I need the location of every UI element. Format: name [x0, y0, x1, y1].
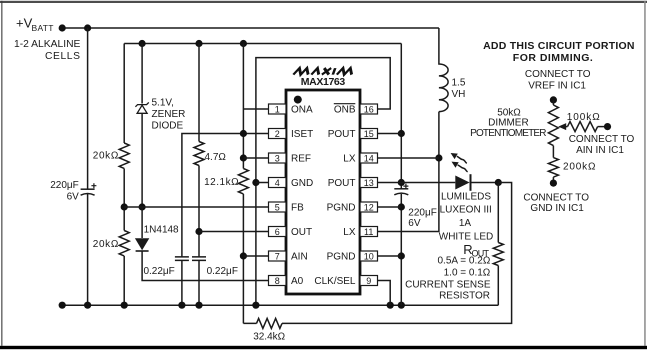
wire: pin 7 AIN stub — [243, 255, 268, 257]
svg-text:5.1V,: 5.1V, — [152, 97, 174, 108]
wire: ISET line pin 2 to bypass cap — [182, 134, 269, 306]
LED D3 Lumileds Luxeon III white LED — [439, 153, 493, 242]
node: AIN connection label — [569, 134, 635, 156]
wire: feedback loop sense node to 32.4k to AIN line — [243, 183, 511, 324]
capacitor C4 220uF 6V (output) — [394, 184, 437, 230]
junction: PGND pin 12 tap — [398, 203, 405, 210]
svg-text:8: 8 — [275, 276, 280, 286]
svg-text:ONB: ONB — [334, 105, 356, 116]
U1 pin 14 label LX — [343, 154, 356, 165]
wire: pin 1 stub — [243, 108, 268, 110]
U1 pin 14 box — [360, 153, 378, 163]
svg-text:A0: A0 — [291, 276, 304, 287]
svg-text:20kΩ: 20kΩ — [93, 239, 119, 250]
svg-text:CELLS: CELLS — [45, 51, 80, 62]
junction: ground rail / PGND line — [398, 302, 405, 309]
U1 pin 12 label PGND — [327, 203, 356, 214]
junction: LED cathode / ROUT / feedback — [495, 179, 502, 186]
svg-text:AIN: AIN — [291, 252, 308, 263]
svg-text:POUT: POUT — [328, 129, 356, 140]
zener diode D1 5.1V — [135, 97, 185, 131]
note: dimming instructions — [483, 40, 634, 64]
junction: POUT rail / ONA branch — [240, 40, 247, 47]
U1 pin 9 box — [360, 276, 378, 286]
junction: AIN tap — [240, 252, 247, 259]
svg-text:1A: 1A — [459, 218, 472, 229]
resistor R5 32.4k — [253, 318, 285, 342]
wire: OUT node to pin 6 — [199, 231, 269, 233]
node: GND connection label — [523, 192, 589, 214]
wire: 100k to AIN terminal — [598, 126, 608, 128]
wire: input cap branch (VBATT to ground) — [87, 28, 89, 305]
wire: POUT/PGND output cap line — [400, 44, 402, 306]
junction: LX tie at pin 14 — [435, 154, 442, 161]
wire: pin 13 POUT to LED anode — [378, 182, 456, 184]
U1 pin 1 box — [269, 104, 287, 114]
junction: ground rail battery return — [59, 302, 66, 309]
svg-text:0.22μF: 0.22μF — [143, 266, 174, 277]
svg-text:LX: LX — [343, 227, 356, 238]
svg-text:1.0 = 0.1Ω: 1.0 = 0.1Ω — [444, 268, 491, 279]
svg-text:6: 6 — [275, 227, 280, 237]
junction: GND pin 4 tap — [252, 179, 259, 186]
svg-text:32.4kΩ: 32.4kΩ — [253, 332, 285, 343]
svg-text:1N4148: 1N4148 — [144, 225, 179, 236]
U1 pin 6 box — [269, 227, 287, 237]
wire: pot to 200k — [552, 146, 554, 158]
svg-text:12: 12 — [364, 202, 374, 212]
capacitor C1 220uF 6V (input) — [50, 180, 96, 202]
U1 pin 7 box — [269, 251, 287, 261]
junction: POUT pin 13 / LED anode — [398, 179, 405, 186]
svg-text:0.5A = 0.2Ω: 0.5A = 0.2Ω — [438, 255, 491, 266]
wire: 1N4148 cathode to pin 8 (A0) — [142, 251, 268, 281]
diode D2 1N4148 — [135, 225, 179, 251]
svg-text:DIODE: DIODE — [152, 121, 184, 132]
svg-text:12.1kΩ: 12.1kΩ — [204, 177, 239, 188]
svg-text:9: 9 — [366, 276, 371, 286]
svg-text:PGND: PGND — [327, 203, 356, 214]
svg-text:POUT: POUT — [328, 178, 356, 189]
svg-text:1.5: 1.5 — [452, 77, 466, 88]
svg-text:LUXEON III: LUXEON III — [440, 205, 492, 216]
svg-text:RESISTOR: RESISTOR — [439, 290, 490, 301]
svg-text:10: 10 — [364, 251, 374, 261]
resistor R4 12.1k — [204, 169, 248, 194]
wire: pin 12 PGND stub — [378, 206, 402, 208]
svg-text:BATT: BATT — [32, 23, 54, 33]
svg-text:11: 11 — [364, 227, 373, 237]
capacitor C2 0.22uF (ISET bypass) — [143, 257, 188, 277]
U1 pin 9 label CLK/SEL — [314, 276, 356, 287]
svg-text:MAX1763: MAX1763 — [301, 76, 346, 88]
svg-text:DIMMER: DIMMER — [488, 117, 529, 128]
junction: POUT pin 15 tap — [398, 130, 405, 137]
junction: +VBATT terminal — [59, 24, 66, 31]
svg-text:OUT: OUT — [291, 227, 312, 238]
wire: 4.7ohm branch — [198, 44, 200, 306]
svg-text:+V: +V — [16, 16, 33, 31]
svg-text:ONA: ONA — [291, 105, 313, 116]
U1 pin 12 box — [360, 202, 378, 212]
svg-text:CONNECT TO: CONNECT TO — [525, 69, 591, 80]
wire: pin 14 LX stub — [378, 157, 439, 159]
svg-text:100kΩ: 100kΩ — [567, 112, 601, 123]
U1 pin-1 indicator dot — [294, 96, 302, 104]
wire: pin 15 POUT stub — [378, 133, 402, 135]
junction: REF tap — [240, 154, 247, 161]
svg-text:FOR DIMMING.: FOR DIMMING. — [513, 52, 593, 64]
svg-text:ZENER: ZENER — [152, 109, 186, 120]
svg-text:6V: 6V — [67, 191, 80, 202]
wire: ONB ground return over IC — [256, 58, 390, 306]
svg-text:ISET: ISET — [291, 129, 313, 140]
svg-text:PGND: PGND — [327, 252, 356, 263]
svg-text:20kΩ: 20kΩ — [93, 151, 119, 162]
junction: FB node at zener/1N4148 — [139, 203, 146, 210]
wire: FB line to pin 5 — [124, 206, 268, 208]
U1 pin 10 box — [360, 251, 378, 261]
U1 pin 4 box — [269, 178, 287, 188]
wire: POUT rail — [124, 43, 401, 45]
junction: POUT rail / 4.7ohm branch — [195, 40, 202, 47]
svg-text:FB: FB — [291, 203, 304, 214]
svg-text:AIN IN IC1: AIN IN IC1 — [576, 145, 624, 156]
svg-text:16: 16 — [364, 104, 374, 114]
wire: ONA branch / reference ladder (pins 1,2,3,7) — [242, 44, 244, 324]
junction: ground rail / C2 — [178, 302, 185, 309]
wire: 20k divider branch — [123, 44, 125, 306]
svg-text:7: 7 — [275, 251, 280, 261]
wire: LX line from inductor to pin 11 — [378, 112, 439, 232]
U1 pin 5 box — [269, 202, 287, 212]
svg-text:220μF: 220μF — [50, 180, 79, 191]
svg-text:CURRENT SENSE: CURRENT SENSE — [405, 280, 491, 291]
U1 pin 13 box — [360, 178, 378, 188]
svg-text:GND: GND — [291, 178, 313, 189]
U1 pin 16 label ONB — [334, 104, 356, 116]
wire: FB node to 1N4148 — [141, 207, 143, 238]
svg-text:ADD THIS CIRCUIT PORTION: ADD THIS CIRCUIT PORTION — [483, 40, 634, 52]
junction: ground rail / GND line — [252, 302, 259, 309]
wire: +VBATT top rail to inductor — [62, 27, 439, 29]
resistor R8 200k — [548, 158, 596, 177]
node +VBATT label — [14, 16, 81, 63]
op-amp U1 MAX1763 body — [286, 90, 360, 294]
junction: AIN connection terminal — [604, 123, 611, 130]
svg-text:GND IN IC1: GND IN IC1 — [530, 203, 584, 214]
resistor ROUT current sense — [405, 242, 503, 302]
junction: PGND pin 10 tap — [398, 252, 405, 259]
wire: zener branch from POUT rail — [141, 44, 143, 208]
svg-text:13: 13 — [364, 178, 374, 188]
U1 pin 2 box — [269, 129, 287, 139]
U1 pin 13 label POUT — [328, 178, 356, 189]
svg-text:14: 14 — [364, 153, 374, 163]
U1 pin 11 label LX — [343, 227, 356, 238]
svg-text:LX: LX — [343, 154, 356, 165]
svg-text:1-2 ALKALINE: 1-2 ALKALINE — [14, 39, 81, 50]
MAXIM logo — [293, 68, 354, 75]
node: VREF connection label — [525, 69, 591, 91]
svg-text:15: 15 — [364, 129, 374, 139]
U1 pin 10 label PGND — [327, 252, 356, 263]
U1 pin 16 box — [360, 104, 378, 114]
svg-text:VREF IN IC1: VREF IN IC1 — [528, 80, 586, 91]
wire: ground rail — [62, 304, 498, 306]
resistor R3 4.7ohm — [194, 142, 226, 166]
svg-text:3: 3 — [275, 153, 280, 163]
wire: pin 9 CLK/SEL to ground — [378, 281, 391, 306]
resistor R1 20k (upper) — [93, 143, 129, 168]
U1 pin 3 box — [269, 153, 287, 163]
svg-text:1: 1 — [275, 104, 280, 114]
svg-text:CONNECT TO: CONNECT TO — [569, 134, 635, 145]
wire: pin 4 GND stub — [256, 182, 269, 184]
svg-text:0.22μF: 0.22μF — [207, 266, 238, 277]
svg-text:2: 2 — [275, 129, 280, 139]
U1 pin 15 label POUT — [328, 129, 356, 140]
wire: LED cathode to sense node — [471, 182, 498, 184]
junction: potentiometer top terminal — [550, 96, 557, 103]
U1 pin 15 box — [360, 129, 378, 139]
wire: sense node down to ROUT — [497, 183, 499, 306]
svg-text:VH: VH — [452, 89, 466, 100]
svg-text:220μF: 220μF — [408, 207, 437, 218]
junction: OUT node at 4.7ohm/cap — [195, 228, 202, 235]
junction: ground connection terminal — [550, 180, 557, 187]
wire: wiper to 100k — [566, 126, 568, 128]
svg-text:5: 5 — [275, 202, 280, 212]
svg-text:4.7Ω: 4.7Ω — [205, 152, 227, 163]
svg-text:REF: REF — [291, 154, 311, 165]
junction: FB node at 20k divider — [121, 203, 128, 210]
svg-text:POTENTIOMETER: POTENTIOMETER — [470, 128, 546, 139]
junction: battery rail / input cap branch — [84, 24, 91, 31]
junction: ground rail / C3 — [195, 302, 202, 309]
resistor R7 100k — [567, 112, 601, 132]
junction: ground rail / 20k — [121, 302, 128, 309]
svg-text:6V: 6V — [408, 218, 421, 229]
junction: ground rail / CLK-SEL — [387, 302, 394, 309]
svg-text:WHITE LED: WHITE LED — [439, 231, 493, 242]
wire: 200k to ground terminal — [552, 177, 554, 183]
junction: POUT rail / zener branch — [139, 40, 146, 47]
svg-text:CONNECT TO: CONNECT TO — [523, 192, 589, 203]
svg-text:CLK/SEL: CLK/SEL — [314, 276, 356, 287]
inductor L1 1.5VH — [439, 28, 466, 112]
potentiometer R6 50k dimmer — [470, 100, 566, 146]
capacitor C3 0.22uF (OUT bypass) — [192, 257, 238, 277]
junction: ISET tap — [240, 130, 247, 137]
svg-text:4: 4 — [275, 178, 280, 188]
svg-text:200kΩ: 200kΩ — [563, 162, 596, 173]
wire: pin 10 PGND stub — [378, 255, 402, 257]
svg-text:LUMILEDS: LUMILEDS — [441, 192, 491, 203]
U1 pin 8 box — [269, 276, 287, 286]
wire: pin 3 REF stub — [243, 157, 268, 159]
resistor R2 20k (lower) — [93, 231, 129, 256]
U1 pin 11 box — [360, 227, 378, 237]
junction: ground rail / input cap — [84, 302, 91, 309]
